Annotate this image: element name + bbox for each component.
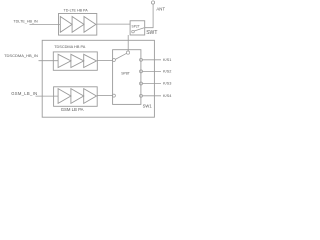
svg-text:TDSCDMA_HB_IN: TDSCDMA_HB_IN: [4, 53, 38, 58]
svg-text:TDLTE_HB_IN: TDLTE_HB_IN: [13, 19, 38, 23]
amplifier block U3 GSM LB PA: [54, 87, 98, 107]
wire K/S1: [142, 59, 161, 61]
svg-text:ANT: ANT: [156, 7, 165, 12]
wire U1 output to SP2T: [97, 23, 130, 25]
throw contact T3: [140, 82, 143, 85]
svg-text:K/S1: K/S1: [163, 58, 171, 62]
wire input 3: [36, 95, 59, 97]
switch SW1 SP8T box: [113, 50, 141, 105]
svg-text:GSM_LB_IN: GSM_LB_IN: [11, 91, 37, 96]
amp stage A2: [72, 17, 84, 33]
wire U2 output: [97, 59, 112, 61]
svg-text:K/S3: K/S3: [163, 82, 171, 86]
pole contact P2: [112, 94, 115, 97]
svg-text:SWT: SWT: [146, 30, 157, 36]
amp stage A1: [60, 17, 72, 33]
svg-text:TD-LTE HB PA: TD-LTE HB PA: [64, 8, 89, 12]
svg-text:SP8T: SP8T: [121, 72, 131, 76]
amp stage A3: [84, 17, 96, 33]
throw contact T4: [140, 94, 143, 97]
switch arm: [115, 53, 126, 59]
wire K/S2: [142, 70, 161, 72]
wire input 2: [39, 60, 59, 62]
svg-text:SP2T: SP2T: [132, 24, 140, 28]
switch SP2T box: [130, 21, 145, 35]
svg-text:TDSCDMA HB PA: TDSCDMA HB PA: [54, 45, 86, 49]
pole contact P1: [112, 59, 115, 62]
amp stage C2: [71, 89, 84, 104]
svg-text:SW1: SW1: [143, 104, 153, 109]
wire K/S3: [142, 83, 161, 85]
svg-text:K/S2: K/S2: [163, 70, 171, 74]
antenna terminal ANT: [151, 1, 154, 4]
amplifier block U2 TDSCDMA HB PA: [53, 52, 97, 70]
wire U3 output: [97, 95, 112, 97]
wire SP2T down to SP8T: [127, 35, 129, 51]
amp stage C3: [84, 89, 97, 104]
amplifier block U1 TD-LTE PA: [59, 14, 97, 36]
amp stage B1: [58, 54, 71, 67]
throw contact T2: [140, 70, 143, 73]
switch arm contact: [132, 30, 135, 33]
throw contact T1: [140, 58, 143, 61]
wire SP2T to antenna: [145, 4, 153, 28]
amp stage B2: [71, 54, 84, 67]
throw contact at top: [126, 51, 129, 54]
switch arm: [134, 28, 144, 31]
svg-text:K/S4: K/S4: [163, 94, 172, 98]
amp stage C1: [58, 89, 71, 104]
wire input 1: [30, 24, 61, 26]
module outer box: [42, 40, 154, 117]
svg-text:GSM LB PA: GSM LB PA: [61, 107, 84, 112]
amp stage B3: [84, 54, 97, 67]
wire K/S4: [142, 95, 161, 97]
